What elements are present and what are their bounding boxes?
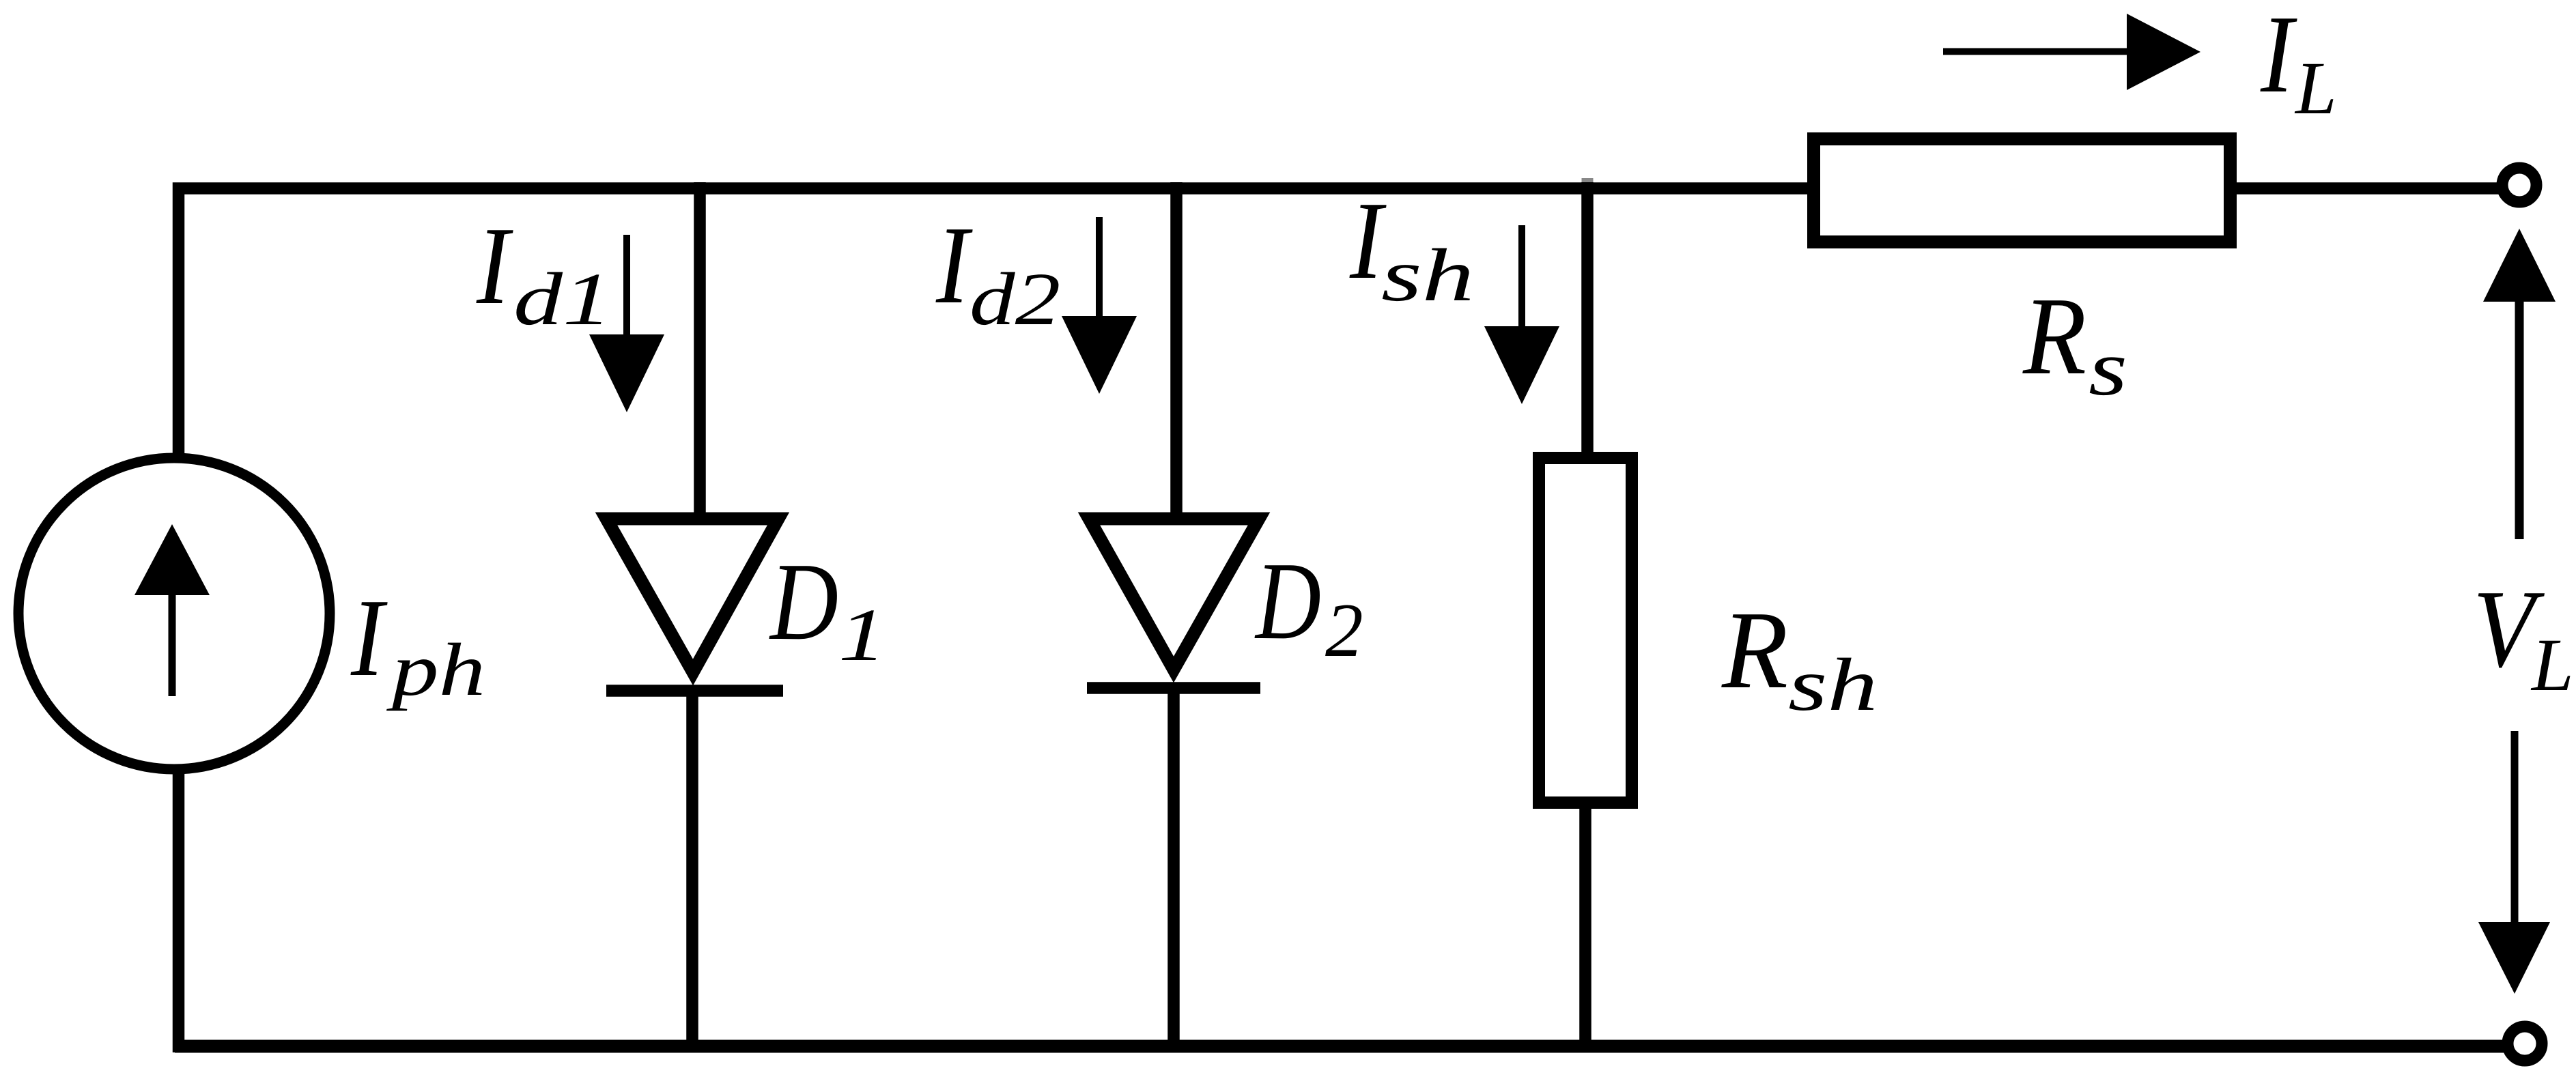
- svg-text:d1: d1: [513, 257, 612, 341]
- wire: bottom bus: [175, 1040, 2504, 1053]
- current source Iph internal arrowhead (points up): [135, 524, 210, 595]
- svg-text:d2: d2: [969, 257, 1060, 341]
- current source Iph internal arrow shaft: [169, 594, 176, 696]
- svg-text:I: I: [476, 205, 513, 328]
- negative output terminal (open circle): [2508, 1026, 2542, 1061]
- diode D2 cathode bar: [1087, 682, 1260, 694]
- current arrow Id2 shaft: [1096, 217, 1103, 317]
- diode D1 triangle: [606, 519, 778, 672]
- svg-text:sh: sh: [1788, 643, 1878, 726]
- wire: top bus from left corner to Rs: [179, 188, 1810, 459]
- voltage arrow VL lower head (points down): [2478, 922, 2550, 994]
- svg-text:s: s: [2089, 325, 2127, 412]
- current arrow Id2 head (points down): [1062, 316, 1137, 394]
- diode D1 cathode bar: [606, 685, 783, 697]
- voltage arrow VL upper head (points up): [2483, 229, 2556, 302]
- current arrow IL head (points right): [2127, 14, 2200, 90]
- svg-text:I: I: [350, 577, 388, 700]
- wire: Rsh to bottom bus: [1579, 803, 1591, 1052]
- diode D2 triangle: [1089, 519, 1259, 670]
- wire: diode D1 cathode wire to bottom bus: [686, 691, 698, 1052]
- svg-text:D: D: [1254, 540, 1321, 663]
- svg-text:1: 1: [838, 593, 886, 676]
- wire: diode D2 anode wire from top bus: [1170, 182, 1183, 517]
- current arrow IL shaft: [1943, 48, 2129, 55]
- svg-text:L: L: [2294, 46, 2337, 130]
- svg-text:R: R: [1721, 589, 1788, 712]
- current arrow Id1 shaft: [623, 235, 630, 336]
- voltage arrow VL upper shaft: [2515, 300, 2524, 539]
- svg-text:R: R: [2022, 275, 2086, 398]
- wire: Rsh branch from top bus to resistor: [1581, 182, 1594, 458]
- svg-text:ph: ph: [386, 628, 485, 711]
- svg-text:L: L: [2530, 623, 2574, 706]
- svg-text:2: 2: [1325, 588, 1363, 673]
- svg-text:D: D: [769, 541, 838, 663]
- voltage arrow VL lower shaft: [2511, 731, 2519, 923]
- wire: left branch lower (current source to bottom bus): [173, 769, 185, 1052]
- current arrow Ish head (points down): [1484, 326, 1559, 404]
- current source Iph (circle symbol): [18, 458, 330, 769]
- resistor Rs body: [1814, 139, 2231, 242]
- positive output terminal (open circle): [2502, 168, 2536, 202]
- resistor Rsh body: [1539, 458, 1632, 803]
- svg-text:I: I: [2260, 0, 2297, 116]
- wire: diode D1 anode wire from top bus: [694, 182, 706, 517]
- wire: Rs to positive output terminal: [2234, 182, 2502, 195]
- current arrow Id1 head (points down): [589, 334, 664, 412]
- junction nub above top bus at Rsh branch: [1582, 178, 1594, 183]
- current arrow Ish shaft: [1518, 225, 1525, 328]
- svg-text:sh: sh: [1381, 233, 1474, 317]
- svg-text:I: I: [935, 204, 973, 327]
- wire: diode D2 cathode wire to bottom bus: [1167, 688, 1180, 1052]
